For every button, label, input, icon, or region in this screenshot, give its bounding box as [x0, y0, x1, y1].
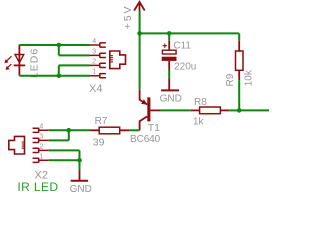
svg-text:3: 3 [39, 134, 43, 141]
wire riser to pin2 row [58, 65, 60, 75]
svg-text:T1: T1 [148, 122, 160, 134]
transistor T1 BC640 [140, 90, 160, 131]
junction at +5V rail left [137, 31, 142, 36]
connector X4 pin 1 [90, 73, 106, 78]
svg-text:R9: R9 [225, 73, 236, 86]
junction X2 pin4/pin3 [67, 128, 72, 133]
LED6 emission arrow 1 [5, 56, 12, 63]
svg-text:X4: X4 [89, 83, 102, 95]
wire +5V vertical from arrow to rail junction [139, 11, 141, 33]
ground GND at X2 [71, 171, 88, 181]
svg-text:IR LED: IR LED [17, 180, 58, 194]
wire to right edge [239, 109, 269, 111]
svg-text:LED6: LED6 [28, 48, 40, 78]
connector X2 jack body [9, 136, 25, 154]
+5V supply symbol arrow [134, 2, 145, 11]
connector X4 pin 3 [90, 53, 106, 58]
wire X2 pin3 horizontal [49, 139, 69, 141]
capacitor C11 [162, 41, 177, 70]
svg-text:+5V: +5V [122, 5, 134, 30]
wire LED anode row to X4 pin4 [19, 44, 89, 46]
wire X2 pin3 riser [68, 130, 70, 140]
svg-text:R7: R7 [95, 116, 108, 127]
svg-text:4: 4 [92, 38, 96, 45]
resistor R7 [90, 127, 129, 134]
junction X2 pin1/pin2 [77, 158, 82, 163]
svg-text:2: 2 [92, 58, 96, 65]
resistor R9 [236, 41, 244, 80]
svg-text:1: 1 [39, 154, 43, 161]
connector X2 pin 4 [33, 128, 49, 133]
svg-text:R8: R8 [194, 97, 207, 108]
svg-text:10k: 10k [243, 69, 254, 86]
junction LED top [57, 43, 62, 48]
wire pin2 row [59, 64, 90, 66]
wire X2 pin2 drop [79, 150, 81, 160]
wire base to R8 [160, 109, 191, 111]
wire X2 pin4 to R7 [49, 129, 90, 131]
LED6 emission arrow 2 [6, 64, 12, 70]
ground GND at C11 [161, 78, 179, 90]
svg-text:1k: 1k [193, 116, 205, 127]
svg-text:GND: GND [160, 93, 182, 104]
wire pin3 row [59, 54, 90, 56]
resistor R8 [191, 107, 229, 114]
junction LED bottom [57, 73, 62, 78]
wire +5V horizontal rail [140, 32, 240, 34]
wire R8 right to junction [229, 109, 239, 111]
connector X2 pin 1 [33, 158, 49, 163]
wire R9 top stub [238, 33, 240, 40]
wire C11 top stub [168, 33, 170, 40]
svg-text:39: 39 [93, 137, 105, 149]
junction at C11 top [167, 31, 172, 36]
wire X2 pin2 horizontal [49, 149, 80, 151]
wire to bottom GND [79, 160, 81, 170]
wire X2 pin1 horizontal [49, 159, 80, 161]
connector X2 pin 2 [33, 148, 49, 153]
junction R8/R9 [237, 108, 242, 113]
connector X4 pin 2 [90, 63, 106, 68]
svg-text:1: 1 [92, 69, 96, 76]
svg-text:4: 4 [39, 124, 43, 131]
svg-text:GND: GND [70, 184, 92, 194]
wire LED cathode row to X4 pin1 [19, 75, 90, 77]
wire R9 bottom to junction [238, 80, 240, 110]
connector X2 pin 3 [33, 138, 49, 143]
svg-text:BC640: BC640 [130, 134, 161, 145]
wire riser to pin3 row [58, 45, 60, 55]
svg-text:C11: C11 [173, 40, 191, 51]
svg-text:220u: 220u [174, 61, 196, 72]
svg-text:2: 2 [39, 144, 43, 151]
wire collector to R7 [129, 129, 140, 131]
wire C11 bottom to GND [168, 70, 170, 78]
connector X4 pin 4 [90, 43, 106, 48]
wire emitter drop to T1 [139, 33, 141, 89]
connector X4 jack body [110, 51, 126, 69]
LED LED6 [14, 45, 26, 76]
svg-text:3: 3 [92, 48, 96, 55]
